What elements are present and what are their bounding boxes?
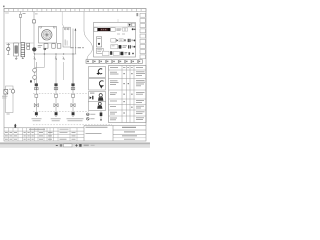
contactor contact KM3 bbox=[71, 83, 74, 86]
contactor contact KM1 bbox=[35, 83, 38, 86]
panel outline bbox=[94, 23, 136, 58]
component boxes under fan bbox=[44, 44, 48, 49]
NC contact row bbox=[34, 57, 64, 61]
actuator figure 2 bbox=[98, 102, 101, 105]
ground under R1 bbox=[22, 57, 24, 59]
terminal X1 bbox=[27, 43, 30, 46]
zone marker bbox=[30, 80, 32, 82]
indicator lamp HL1 bbox=[32, 48, 36, 52]
mechanical link dashes upper bbox=[33, 93, 89, 95]
actuator figure bbox=[99, 94, 102, 97]
bottom toolbar bbox=[0, 142, 150, 145]
lamp column wire bbox=[34, 54, 36, 83]
extra toolbar mark bbox=[91, 145, 95, 146]
percent text bbox=[84, 145, 89, 147]
valve body Y3 bbox=[71, 103, 73, 107]
relay contact K1 bbox=[7, 43, 9, 47]
terminal strip XT1 bbox=[86, 60, 142, 64]
legend table bbox=[109, 66, 147, 123]
wire panel left bbox=[102, 51, 109, 55]
title block left grid bbox=[4, 127, 84, 129]
label box bbox=[96, 48, 103, 53]
float circuit loop bbox=[6, 86, 14, 113]
control bus bbox=[34, 53, 76, 55]
valve body Y2 bbox=[54, 103, 56, 107]
junction box X2 bbox=[63, 27, 70, 47]
legend symbol box 4 bbox=[89, 102, 106, 111]
tie line bbox=[35, 67, 45, 69]
sensor stub bbox=[100, 111, 102, 121]
wire: left feed riser bbox=[20, 12, 22, 44]
small icon bbox=[60, 144, 62, 146]
branch 2 wire bbox=[55, 54, 57, 112]
meter box bbox=[96, 37, 101, 47]
actuator M bbox=[55, 112, 58, 115]
damper close symbol bbox=[99, 81, 103, 86]
panel row C bbox=[110, 51, 112, 55]
right sub box bbox=[112, 126, 114, 142]
label in box bbox=[65, 40, 66, 46]
wire: control riser bbox=[33, 12, 35, 55]
title block right top line bbox=[84, 125, 146, 127]
junction dot bbox=[44, 48, 47, 51]
label text bbox=[9, 88, 11, 91]
label bbox=[67, 117, 84, 120]
arrow head bbox=[75, 28, 77, 30]
junction dots on bus bbox=[34, 53, 35, 54]
label bbox=[32, 117, 42, 120]
title text marks bbox=[5, 129, 76, 140]
zoom minus bbox=[56, 144, 58, 147]
column numbers bbox=[8, 10, 142, 11]
mechanical link dashes lower bbox=[33, 111, 89, 113]
feed line to box bbox=[61, 12, 63, 25]
label right of panel bbox=[136, 13, 138, 16]
grounding symbol b bbox=[87, 118, 90, 121]
grounding symbol a bbox=[87, 113, 90, 116]
branch clusters bbox=[32, 83, 42, 121]
legend symbol box 2 bbox=[89, 79, 106, 91]
zoom plus bbox=[75, 144, 77, 147]
stamp glyph bbox=[14, 124, 17, 128]
NC3 descender wire bbox=[63, 62, 65, 80]
terminal ladder right bbox=[140, 13, 145, 59]
ground under K2 bbox=[15, 56, 17, 58]
top reference strip bbox=[4, 9, 146, 12]
dark icon bbox=[79, 144, 81, 147]
label text row bbox=[38, 44, 42, 47]
lamp HL3 bbox=[33, 76, 37, 80]
terminal circle left bbox=[40, 26, 42, 28]
display window bbox=[111, 28, 116, 32]
level sensor B1 bbox=[4, 90, 8, 95]
button row bbox=[122, 28, 124, 31]
resistor bank R1 bbox=[21, 43, 25, 57]
legend symbol box 3 bbox=[89, 92, 106, 103]
text 18B18 bbox=[116, 28, 121, 31]
header boxes right bbox=[128, 23, 131, 26]
zone dashes bottom bbox=[33, 124, 112, 126]
gauge P1 bbox=[11, 90, 15, 94]
fuse F1 bbox=[19, 14, 21, 17]
panel row A bbox=[111, 39, 116, 43]
actuator M bbox=[72, 112, 75, 115]
switch blade bbox=[62, 24, 64, 27]
contactor contact KM2 bbox=[54, 83, 57, 86]
fan unit enclosure bbox=[39, 27, 57, 44]
damper open symbol bbox=[98, 69, 102, 74]
loop bottom label bbox=[7, 113, 10, 116]
right block text line bbox=[86, 126, 108, 129]
disconnect switch Q1 bbox=[33, 20, 36, 23]
riser wire pair bbox=[72, 29, 74, 84]
wire stub bbox=[43, 48, 45, 67]
fan impeller M1 bbox=[42, 30, 52, 40]
table text marks bbox=[110, 67, 145, 120]
input field bbox=[64, 144, 72, 147]
cable curve from top to terminal strip bbox=[84, 12, 93, 60]
switch box bbox=[94, 28, 97, 32]
frame border bbox=[4, 9, 146, 142]
valve body Y1 bbox=[34, 103, 36, 107]
label -F1 bbox=[23, 12, 26, 15]
control rail top bbox=[6, 42, 34, 44]
branch 3 wire bbox=[72, 54, 74, 112]
panel feed stub bbox=[117, 19, 119, 23]
branch 1 wire bbox=[35, 62, 37, 112]
limit switch symbol bbox=[90, 93, 94, 94]
sheet label under strip bbox=[5, 12, 9, 15]
contactor block K2 bbox=[14, 43, 19, 56]
label tick bbox=[35, 13, 38, 16]
corner mark bbox=[3, 6, 5, 8]
actuator M bbox=[35, 112, 38, 115]
panel row B bbox=[111, 45, 118, 49]
terminal circle right bbox=[53, 26, 55, 28]
legend symbol box 1 bbox=[89, 67, 106, 78]
header underline bbox=[94, 26, 136, 28]
indicator dots bbox=[132, 28, 134, 30]
display bar bbox=[98, 28, 111, 31]
label bbox=[51, 117, 61, 120]
lamp HL2 bbox=[33, 68, 37, 72]
label (+) (-) bbox=[70, 47, 84, 48]
